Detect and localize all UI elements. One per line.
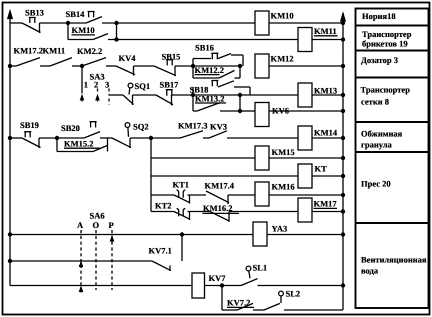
- svg-text:Дозатор 3: Дозатор 3: [361, 55, 398, 65]
- pushbutton SB20 (NO): [57, 137, 84, 139]
- svg-text:KM17.2: KM17.2: [14, 46, 44, 56]
- node after SB13: [66, 21, 69, 24]
- svg-text:KM2.2: KM2.2: [77, 46, 102, 56]
- pushbutton SB13 (NC): [22, 23, 41, 33]
- switch SA3 column 3: [108, 89, 110, 95]
- svg-text:KM12.2: KM12.2: [195, 65, 225, 75]
- coil KM10: [255, 11, 269, 35]
- wire: [108, 39, 298, 41]
- svg-text:SB20: SB20: [61, 123, 80, 133]
- svg-text:KM15.2: KM15.2: [64, 139, 94, 149]
- svg-text:А: А: [77, 220, 84, 230]
- svg-text:KT: KT: [315, 164, 328, 174]
- rung 1 wire: [10, 22, 22, 24]
- rung 3 wire: [109, 94, 124, 96]
- coil KM11: [298, 28, 312, 52]
- node rejoin: [116, 23, 118, 40]
- svg-text:KM17.3: KM17.3: [178, 121, 208, 131]
- svg-text:SB15: SB15: [162, 52, 181, 62]
- limit switch SQ2 (NC): [112, 138, 131, 148]
- svg-text:Транспортер: Транспортер: [362, 29, 412, 39]
- wire: [102, 22, 255, 24]
- svg-text:KM17.4: KM17.4: [205, 181, 235, 191]
- svg-text:KM15: KM15: [272, 147, 295, 157]
- coil KM12: [255, 54, 269, 78]
- switch SA6 column A: [80, 230, 82, 290]
- svg-text:Нория18: Нория18: [362, 11, 396, 21]
- contact KV7.1 (NO): [181, 235, 183, 262]
- svg-text:Прес 20: Прес 20: [361, 179, 391, 189]
- rung 2 wire: [8, 64, 11, 67]
- svg-text:KV7.2: KV7.2: [227, 298, 250, 308]
- node split SB18/KM13.2: [191, 93, 194, 96]
- svg-text:YA3: YA3: [272, 224, 288, 234]
- contact KM13.2 branch (self-hold): [192, 95, 194, 111]
- contact KM12.2 branch (self-hold): [192, 66, 194, 78]
- svg-text:KV4: KV4: [119, 53, 137, 63]
- svg-text:SB14: SB14: [66, 9, 86, 19]
- svg-text:KM10: KM10: [271, 11, 294, 21]
- pushbutton SB17 (NC): [133, 94, 157, 96]
- svg-text:SL1: SL1: [253, 263, 268, 273]
- rung YA3 wire: [8, 233, 11, 236]
- table frame: [356, 9, 429, 309]
- switch SA6 column P: [111, 230, 113, 290]
- svg-text:2: 2: [94, 80, 98, 90]
- contact KM15.2 branch (self-hold): [56, 138, 58, 152]
- svg-text:SB17: SB17: [160, 80, 180, 90]
- svg-text:KM16: KM16: [272, 182, 295, 192]
- coil KM17: [298, 198, 312, 222]
- coil KM14: [298, 126, 312, 150]
- svg-text:Р: Р: [109, 220, 114, 230]
- svg-text:1: 1: [84, 80, 88, 90]
- limit switch SQ1 (NC): [123, 95, 134, 105]
- coil KM13: [298, 83, 312, 107]
- vertical feed bus: [150, 138, 152, 212]
- pushbutton SB18 branch (NO): [192, 87, 194, 95]
- wire: [40, 22, 69, 24]
- switch SA3 column 2: [97, 89, 99, 95]
- svg-text:KM11: KM11: [43, 46, 66, 56]
- svg-text:KM13: KM13: [314, 86, 337, 96]
- svg-text:KV7.1: KV7.1: [149, 246, 172, 256]
- contact KM17.2 (NO): [16, 58, 40, 66]
- coil KV7: [192, 273, 205, 298]
- limit switch SL2 (NO): [264, 303, 280, 310]
- svg-text:SA6: SA6: [90, 211, 105, 221]
- pushbutton SB16 branch (NO): [192, 59, 194, 67]
- contact KV3 (NO): [209, 131, 227, 138]
- svg-text:KV3: KV3: [210, 122, 227, 132]
- svg-text:О: О: [93, 220, 100, 230]
- table text: [361, 11, 427, 276]
- svg-text:KM17: KM17: [314, 199, 338, 209]
- right rail: [342, 13, 344, 310]
- svg-text:вода: вода: [361, 266, 379, 276]
- svg-text:гранула: гранула: [361, 140, 393, 150]
- svg-text:Обжимная: Обжимная: [361, 129, 403, 139]
- node SB20 split: [55, 136, 58, 139]
- limit switch SL1 (NO): [241, 279, 258, 286]
- svg-text:KV7: KV7: [209, 273, 227, 283]
- svg-text:SQ2: SQ2: [133, 122, 149, 132]
- svg-text:3: 3: [105, 80, 109, 90]
- switch SA3 column 1: [81, 66, 83, 94]
- svg-text:SQ1: SQ1: [135, 81, 151, 91]
- coil YA3: [253, 222, 267, 246]
- svg-text:SB19: SB19: [20, 120, 39, 130]
- switch SA6 column O: [95, 230, 97, 290]
- contact KT1 (NC, time delay): [151, 194, 174, 196]
- svg-text:сетки 8: сетки 8: [361, 97, 389, 107]
- svg-text:KM13.2: KM13.2: [195, 94, 225, 104]
- pushbutton SB14 (NO): [68, 22, 86, 24]
- coil KV6: [255, 103, 269, 127]
- svg-text:KM16.2: KM16.2: [203, 203, 233, 213]
- pushbutton SB15 (NC): [154, 66, 176, 76]
- svg-text:KM10: KM10: [72, 25, 95, 35]
- svg-text:KV6: KV6: [272, 106, 289, 116]
- node split SB16/KM12.2: [191, 64, 194, 67]
- coil KT rung: [151, 175, 298, 177]
- svg-text:SL2: SL2: [286, 289, 301, 299]
- svg-text:KM11: KM11: [314, 26, 337, 36]
- contact KV4 (NC): [116, 66, 135, 75]
- left rail: [9, 13, 11, 286]
- svg-text:брикетов 19: брикетов 19: [362, 39, 408, 49]
- contact KM16.2 (NC): [188, 211, 211, 213]
- rail top arrows: [8, 11, 12, 19]
- svg-text:SB13: SB13: [25, 8, 44, 18]
- svg-text:Транспортер: Транспортер: [361, 85, 411, 95]
- pushbutton SB19 (NC): [22, 138, 41, 148]
- rung 4 wire: [8, 136, 11, 139]
- contact KM11 (NO): [50, 58, 72, 66]
- svg-text:KM14: KM14: [314, 128, 338, 138]
- coil KM15 rung: [151, 157, 255, 159]
- contact KM2.2 (NO): [82, 58, 106, 66]
- svg-text:KT1: KT1: [173, 180, 190, 190]
- coil KM16: [255, 182, 269, 206]
- contact KV7.2 branch (NO): [221, 286, 223, 311]
- contact KM17.3 (NO): [151, 137, 180, 139]
- node feed lower group: [149, 136, 152, 139]
- svg-text:KT2: KT2: [155, 201, 172, 211]
- node SA3 feed: [80, 64, 83, 67]
- rung KV7 wire: [10, 285, 192, 287]
- contact KM10 (self-hold branch): [67, 23, 69, 40]
- contact KM17.4 (NC): [188, 194, 207, 196]
- contact KT2 (NC, time delay): [151, 211, 174, 213]
- svg-text:SB16: SB16: [195, 43, 214, 53]
- svg-text:KM12: KM12: [271, 54, 294, 64]
- svg-text:Вентиляционная: Вентиляционная: [361, 255, 427, 265]
